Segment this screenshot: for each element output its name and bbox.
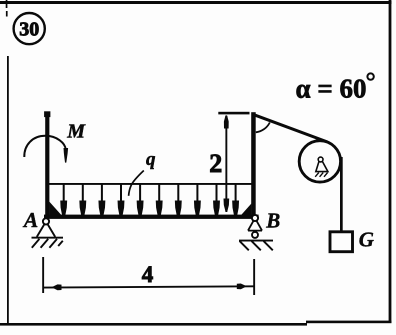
svg-text:B: B xyxy=(265,208,280,232)
support A triangle xyxy=(37,224,55,237)
svg-text:2: 2 xyxy=(209,149,222,178)
beam AB xyxy=(44,215,259,219)
svg-text:q: q xyxy=(146,149,156,170)
support B hatching xyxy=(240,241,273,250)
svg-text:M: M xyxy=(66,121,86,143)
dimension 4 line xyxy=(43,286,254,287)
degree circle of 60deg xyxy=(367,73,373,79)
svg-text:G: G xyxy=(359,227,374,251)
dimension 4 right extension line xyxy=(253,259,255,295)
rope from post corner to pulley xyxy=(253,114,328,142)
support A pin circle xyxy=(43,218,49,224)
support B ground line xyxy=(239,240,273,242)
support B triangle xyxy=(248,221,262,231)
pulley circle xyxy=(299,141,340,182)
frame top border xyxy=(0,1,392,4)
moment M arrowhead xyxy=(64,148,69,163)
rope from pulley to weight xyxy=(340,157,343,232)
pulley axle small circle xyxy=(318,157,323,162)
svg-text:30: 30 xyxy=(19,18,39,40)
right vertical post xyxy=(251,112,256,219)
gusset at A xyxy=(49,202,62,216)
left post top cap xyxy=(44,111,50,117)
leader line for q xyxy=(129,171,144,196)
moment M arc xyxy=(24,136,65,157)
distributed load arrows xyxy=(61,184,238,214)
frame right border xyxy=(389,0,392,323)
dimension 2 arrow line xyxy=(225,116,227,212)
weight G box xyxy=(330,232,353,252)
support A ground line xyxy=(32,237,64,239)
svg-text:4: 4 xyxy=(142,262,154,287)
left vertical post xyxy=(45,112,49,219)
support A hatching xyxy=(32,239,63,248)
dimension 2 top arrowhead xyxy=(224,115,229,128)
dimension 4 right arrowhead xyxy=(237,284,247,290)
frame bottom border xyxy=(0,323,307,326)
distributed load line xyxy=(47,183,253,185)
pulley axle ground hatching xyxy=(315,173,327,177)
frame left border xyxy=(6,0,8,8)
svg-text:α = 60: α = 60 xyxy=(296,74,367,104)
svg-text:A: A xyxy=(22,208,38,232)
problem number 30 badge circle xyxy=(14,13,45,44)
support B roller circle xyxy=(252,232,258,238)
pulley axle triangle xyxy=(316,161,328,171)
angle alpha arc at post corner xyxy=(256,123,270,133)
gusset at B xyxy=(241,204,252,216)
top horizontal line xyxy=(218,112,249,115)
support B pin circle xyxy=(252,215,258,221)
dimension 4 left extension line xyxy=(42,257,44,293)
dimension 4 left arrowhead xyxy=(52,284,62,290)
dimension 2 bottom arrowhead xyxy=(224,199,230,212)
